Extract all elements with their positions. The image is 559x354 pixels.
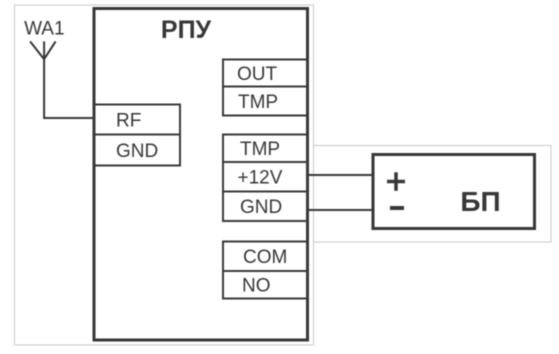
svg-text:TMP: TMP: [240, 139, 280, 160]
terminal block OUT/TMP: [223, 60, 308, 116]
power supply box БП: [373, 155, 535, 229]
svg-text:БП: БП: [460, 186, 500, 217]
frame: right panel border: [314, 146, 552, 243]
terminal block COM/NO: [223, 242, 308, 299]
wire antenna to RF terminal: [44, 59, 95, 118]
frame: left panel border: [15, 5, 314, 345]
svg-text:NO: NO: [242, 276, 271, 297]
plus terminal: [387, 172, 405, 191]
terminal block RF/GND: [95, 105, 181, 166]
svg-text:+12V: +12V: [238, 168, 283, 189]
wire GND to БП minus: [306, 209, 373, 211]
svg-text:COM: COM: [243, 247, 287, 268]
terminal block TMP/+12V/GND: [223, 135, 308, 222]
wire +12V to БП plus: [306, 174, 373, 176]
device box РПУ: [94, 9, 308, 341]
svg-text:РПУ: РПУ: [161, 16, 212, 44]
svg-text:OUT: OUT: [237, 64, 278, 85]
minus terminal: [390, 206, 404, 210]
svg-text:RF: RF: [116, 111, 141, 132]
svg-text:WA1: WA1: [24, 19, 64, 40]
antenna WA1: [30, 41, 55, 59]
svg-text:GND: GND: [240, 197, 282, 218]
svg-text:TMP: TMP: [238, 92, 278, 113]
svg-text:GND: GND: [116, 141, 158, 162]
